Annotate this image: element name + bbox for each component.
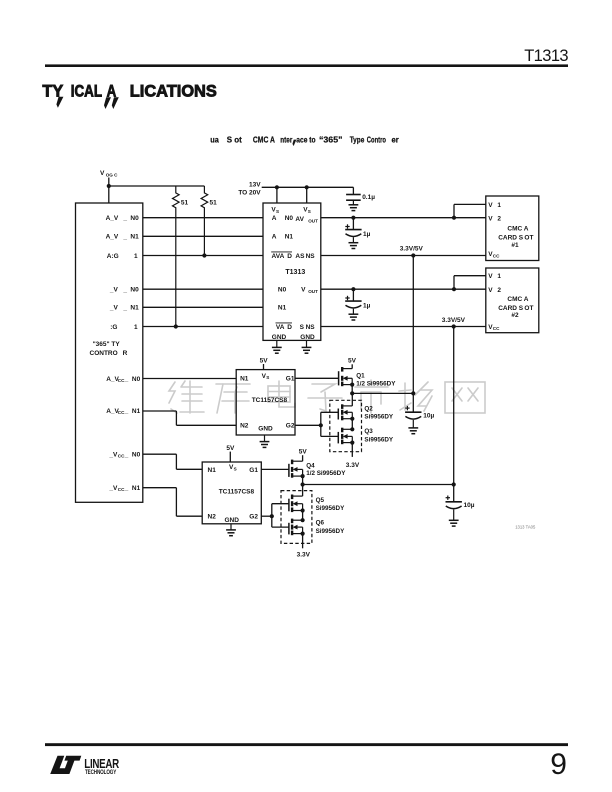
svg-text:GND: GND: [272, 334, 287, 341]
ground U1 GND2: [306, 340, 308, 347]
wire B_VPP_EN0: [143, 288, 263, 290]
svg-text:nter: nter: [280, 135, 293, 144]
ground C4: [412, 420, 414, 428]
wire U2 G2 to gate bus A: [295, 424, 321, 426]
transistor Q6 Si9956DY: [289, 519, 345, 536]
svg-text:LICATIONS: LICATIONS: [130, 81, 217, 100]
svg-text:TC1157CS8: TC1157CS8: [252, 397, 288, 404]
header rule: [45, 64, 568, 67]
svg-text:CARD S: CARD S: [498, 305, 524, 312]
svg-text:NS: NS: [306, 324, 316, 331]
junction Q6 drain: [301, 518, 305, 522]
connector J2 PCMCIA card slot 2: [486, 268, 539, 333]
svg-text:#1: #1: [511, 242, 519, 249]
wire Q3 source to 3.3V: [351, 443, 353, 457]
svg-text:CARD S: CARD S: [498, 235, 524, 242]
junction R2 bottom: [202, 253, 206, 257]
resistor R2 51: [201, 186, 208, 256]
schematic caption: [210, 135, 399, 145]
transistor Q4 1/2 Si9956DY: [289, 460, 346, 479]
svg-text:GND: GND: [225, 517, 240, 524]
ground C2: [352, 237, 354, 243]
wire VOGC horizontal to resistors: [109, 185, 205, 187]
junction AVCC node left: [350, 391, 354, 395]
svg-text:1µ: 1µ: [363, 231, 371, 238]
ground U2: [264, 435, 266, 442]
svg-text:_: _: [122, 287, 127, 294]
svg-text:V: V: [488, 215, 493, 222]
junction AVCC node right: [411, 391, 415, 395]
svg-text:G2: G2: [286, 423, 295, 430]
wire Q5 source to Q6 drain: [302, 511, 304, 521]
wire Q6 source to 3.3V: [302, 534, 304, 549]
svg-text:1/2 Si9956DY: 1/2 Si9956DY: [306, 470, 346, 477]
capacitor C4 10u: [405, 406, 434, 420]
wire A_VPP_EN0: [143, 217, 263, 219]
controller pin labels lower: [106, 376, 140, 492]
svg-text:OG C: OG C: [106, 172, 118, 177]
connector J1 PCMCIA card slot 1: [486, 196, 539, 261]
wire AVPP OUT: [321, 217, 486, 219]
junction BVCC node right: [452, 482, 456, 486]
svg-text:D: D: [287, 253, 292, 260]
svg-text:NS: NS: [306, 253, 316, 260]
svg-text:5V: 5V: [226, 445, 235, 452]
wire Q4 source to BVCC node: [302, 476, 304, 484]
wire A:G1 / AVALID: [143, 255, 263, 257]
svg-text:9: 9: [550, 748, 567, 781]
svg-text:"365" TY: "365" TY: [93, 341, 121, 348]
svg-text:ace to: ace to: [296, 135, 315, 144]
svg-text:Q6: Q6: [316, 520, 325, 527]
svg-text:_V: _V: [109, 287, 119, 294]
wire gate bus A: [320, 412, 322, 436]
svg-text:_: _: [122, 305, 127, 312]
svg-text:3.3V/5V: 3.3V/5V: [400, 246, 424, 253]
svg-text:N0: N0: [278, 287, 287, 294]
wire :G1 / VALID: [143, 326, 263, 328]
capacitor C1 0.1u: [346, 187, 375, 201]
wire gate bus B: [271, 504, 273, 527]
wire Q2 source to Q3 drain: [351, 419, 353, 430]
svg-text:_: _: [124, 485, 129, 492]
svg-text:ICAL: ICAL: [71, 81, 102, 100]
svg-text:N1: N1: [130, 305, 139, 312]
svg-text:V: V: [488, 202, 493, 209]
wire AVCC node to Q2 drain: [351, 393, 353, 406]
ground C1: [352, 200, 354, 205]
svg-text:_: _: [124, 451, 129, 458]
svg-text:1: 1: [134, 324, 138, 331]
junction AVCC: [411, 253, 415, 257]
svg-text:N1: N1: [208, 467, 217, 474]
controller U3 "365" type controller box: [76, 203, 143, 502]
svg-text:Q5: Q5: [316, 497, 325, 504]
svg-text:OT: OT: [524, 235, 533, 242]
LT logo: [50, 756, 119, 776]
wire BVCC node to Q5 drain: [302, 485, 304, 497]
svg-text:Q1: Q1: [356, 373, 365, 380]
junction Q3 drain: [350, 427, 354, 431]
transistor Q3 Si9956DY: [338, 428, 394, 445]
svg-text:AVA: AVA: [272, 253, 285, 260]
svg-text:S: S: [234, 466, 237, 471]
transistor Q2 Si9956DY: [338, 404, 394, 421]
svg-text:A: A: [272, 234, 277, 241]
svg-text:OUT: OUT: [308, 219, 318, 224]
regulator U4 TC1157CS8 box: [202, 462, 261, 524]
svg-text:_: _: [124, 408, 129, 415]
svg-text:OUT: OUT: [308, 289, 318, 294]
svg-text:_V: _V: [108, 485, 118, 492]
svg-text:#2: #2: [511, 312, 519, 319]
junction VOGC: [107, 184, 111, 188]
svg-text:“365”: “365”: [319, 135, 343, 144]
svg-text:5V: 5V: [260, 357, 269, 364]
svg-text:V: V: [488, 273, 493, 280]
wire B_VCC_EN0 to U4 N1: [143, 453, 177, 455]
svg-text:3.3V/5V: 3.3V/5V: [442, 317, 466, 324]
svg-text:CMC A: CMC A: [253, 135, 275, 144]
svg-text:N1: N1: [285, 234, 294, 241]
svg-text:V: V: [488, 287, 493, 294]
svg-text:N0: N0: [132, 451, 141, 458]
wire VOGC vertical: [108, 178, 110, 204]
svg-text:N1: N1: [130, 234, 139, 241]
resistor R1 51: [173, 186, 180, 327]
svg-text:Type: Type: [350, 135, 365, 144]
svg-text:13V: 13V: [249, 182, 261, 189]
controller pin labels upper: [106, 215, 139, 331]
svg-text:G1: G1: [249, 467, 258, 474]
svg-text:51: 51: [181, 200, 189, 207]
svg-text:Si9956DY: Si9956DY: [316, 505, 346, 512]
svg-text:A_V: A_V: [106, 234, 119, 241]
svg-text:N2: N2: [208, 514, 217, 521]
svg-text:Si9956DY: Si9956DY: [364, 413, 394, 420]
svg-text:S: S: [266, 375, 269, 380]
junction gate bus A: [319, 423, 323, 427]
svg-text:TECHNOLOGY: TECHNOLOGY: [85, 769, 116, 776]
U1 pin labels: [271, 207, 318, 341]
svg-text:GND: GND: [258, 425, 273, 432]
svg-text:N1: N1: [132, 485, 141, 492]
wire BVCC vertical: [453, 327, 455, 502]
wire AVPP branch to VPP1 slot1: [453, 204, 455, 217]
svg-text:T1313: T1313: [285, 269, 305, 276]
wire A_VPP_EN1: [143, 235, 263, 237]
svg-text:N0: N0: [130, 215, 139, 222]
svg-text:A_V: A_V: [106, 215, 119, 222]
svg-text:TO 20V: TO 20V: [238, 189, 261, 196]
svg-text:G2: G2: [249, 514, 258, 521]
junction VS2: [305, 185, 309, 189]
svg-text:N1: N1: [278, 305, 287, 312]
svg-text:3.3V: 3.3V: [346, 462, 360, 469]
svg-text:N0: N0: [132, 376, 141, 383]
svg-text:ua: ua: [210, 135, 219, 144]
junction gate bus B: [270, 514, 274, 518]
wire A_VCC_EN1 to U2 N2: [143, 410, 177, 412]
ground C3: [352, 309, 354, 315]
footer rule: [45, 743, 568, 746]
svg-text:0.1µ: 0.1µ: [362, 194, 375, 201]
wire U4 G1 to Q4 gate: [261, 468, 289, 470]
svg-text:V: V: [100, 170, 105, 177]
svg-text:CMC A: CMC A: [507, 226, 528, 233]
svg-text:G1: G1: [286, 376, 295, 383]
svg-text:1: 1: [497, 202, 501, 209]
svg-text:R: R: [123, 350, 128, 357]
wire 13V rail: [262, 186, 354, 188]
ground C5: [453, 510, 455, 521]
junction BVCC node left: [301, 482, 305, 486]
svg-text:A:G: A:G: [107, 253, 119, 260]
svg-text:N0: N0: [130, 287, 139, 294]
wire Q1 drain to 5V: [351, 364, 353, 368]
svg-text:N2: N2: [240, 423, 249, 430]
svg-text:Si9956DY: Si9956DY: [316, 528, 346, 535]
wire BVPP branch to VPP1 slot2: [453, 276, 455, 290]
capacitor C2 1u: [345, 218, 370, 238]
svg-text:1: 1: [497, 273, 501, 280]
regulator U2 TC1157CS8 box: [236, 370, 295, 435]
svg-text:2: 2: [497, 215, 501, 222]
junction VS1: [275, 185, 279, 189]
svg-text:1µ: 1µ: [363, 302, 371, 309]
svg-text:N1: N1: [132, 408, 141, 415]
svg-text:TC1157CS8: TC1157CS8: [219, 489, 255, 496]
svg-text:5V: 5V: [348, 358, 357, 365]
junction AVPP branch: [452, 216, 456, 220]
svg-text:T1313: T1313: [524, 47, 568, 65]
svg-text:Q3: Q3: [364, 428, 373, 435]
wire Q1 source to AVCC node: [351, 385, 353, 394]
svg-text:_: _: [124, 376, 129, 383]
node 13V TO 20V label: [238, 182, 261, 197]
svg-text:S: S: [300, 324, 305, 331]
svg-text:Contro: Contro: [367, 135, 386, 144]
svg-text:CC: CC: [493, 326, 500, 331]
svg-text:Si9956DY: Si9956DY: [364, 436, 394, 443]
dashed pair box A: [330, 400, 362, 451]
svg-text:N0: N0: [285, 215, 294, 222]
wire VS1 stub: [276, 187, 278, 203]
node V OG C supply label: [100, 170, 118, 177]
svg-text:S ot: S ot: [227, 135, 242, 144]
svg-text:CONTRO: CONTRO: [90, 350, 118, 357]
svg-text:_: _: [122, 234, 127, 241]
dashed pair box B: [281, 491, 312, 544]
svg-text:10µ: 10µ: [464, 502, 475, 509]
svg-text:51: 51: [210, 200, 218, 207]
svg-text:D: D: [287, 324, 292, 331]
wire BVCC node: [303, 484, 454, 486]
wire U2 G1 to Q1 gate: [295, 377, 339, 379]
ground U1 GND1: [276, 340, 278, 347]
svg-text:GND: GND: [300, 334, 315, 341]
watermark: [169, 380, 485, 413]
svg-text:2: 2: [497, 287, 501, 294]
transistor Q5 Si9956DY: [289, 495, 345, 513]
wire AVCC node: [352, 392, 413, 394]
svg-text:S: S: [276, 209, 279, 214]
svg-text:VA: VA: [276, 324, 285, 331]
wire VS2 stub: [306, 187, 308, 203]
svg-text:_V: _V: [109, 305, 119, 312]
svg-text:AV: AV: [295, 216, 304, 223]
wire Q4 drain to 5V: [302, 455, 304, 461]
junction BVCC: [452, 324, 456, 328]
wire 5V stub U4: [229, 452, 231, 462]
svg-text:_: _: [122, 215, 127, 222]
svg-text:1/2 Si9956DY: 1/2 Si9956DY: [356, 380, 396, 387]
svg-text:_V: _V: [108, 451, 118, 458]
svg-text:CMC A: CMC A: [507, 296, 528, 303]
svg-text:1: 1: [134, 253, 138, 260]
junction AVPP cap: [351, 216, 355, 220]
svg-text:A: A: [272, 215, 277, 222]
junction BVPP cap: [351, 287, 355, 291]
svg-text:AS: AS: [295, 253, 305, 260]
capacitor C3 1u: [345, 289, 370, 309]
svg-text:1313 TA05: 1313 TA05: [515, 524, 536, 529]
title TYPICAL APPLICATIONS: [42, 81, 216, 109]
wire B_VPP_EN1: [143, 306, 263, 308]
svg-text:er: er: [392, 135, 400, 144]
wire A_VCC_EN0 to U2 N1: [143, 378, 236, 380]
svg-text:Q4: Q4: [306, 462, 315, 469]
wire BVCC sense to slot2 VCC: [321, 326, 486, 328]
wire AVCC sense to slot1 VCC: [321, 255, 486, 257]
wire AVCC vertical: [412, 256, 414, 413]
junction BVPP branch: [452, 287, 456, 291]
svg-text:S: S: [308, 209, 311, 214]
svg-text:OT: OT: [524, 305, 533, 312]
svg-text:CC: CC: [493, 253, 500, 258]
svg-text:V: V: [301, 287, 306, 294]
op-amp U1 LT1313 box: [263, 203, 321, 340]
svg-text:3.3V: 3.3V: [297, 551, 311, 558]
svg-text:10µ: 10µ: [423, 413, 434, 420]
wire BVPP OUT: [321, 288, 486, 290]
ground U4: [230, 524, 232, 530]
svg-text:N1: N1: [240, 376, 249, 383]
wire B_VCC_EN1 to U4 N2: [143, 487, 177, 489]
svg-text::G: :G: [110, 324, 117, 331]
capacitor C5 10u: [446, 496, 475, 510]
svg-text:Q2: Q2: [364, 405, 373, 412]
junction R1 bottom: [174, 324, 178, 328]
transistor Q1 1/2 Si9956DY: [339, 367, 397, 387]
svg-text:5V: 5V: [299, 448, 308, 455]
wire U4 G2 to gate bus B: [261, 515, 272, 517]
wire 5V stub U2: [263, 364, 265, 370]
